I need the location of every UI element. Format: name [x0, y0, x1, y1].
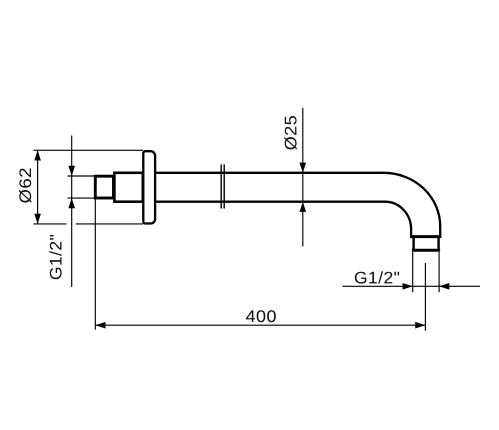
outlet centerline: [424, 263, 426, 331]
dimension G1/2 left top extension line: [68, 175, 97, 177]
outlet collar right side: [437, 237, 439, 251]
joint tick left: [220, 164, 222, 208]
outlet collar left side: [412, 237, 414, 251]
dimension 400 arrow pointing right: [415, 322, 425, 329]
dimension Ø62 arrow up: [34, 150, 41, 160]
dimension Ø62 label: [19, 168, 31, 202]
outlet collar top band: [410, 235, 441, 238]
tube top edge: [156, 172, 385, 174]
dimension G1/2 left label: [49, 235, 61, 279]
wall flange: [143, 151, 155, 223]
dimension G1/2 left dimension line: [71, 136, 73, 288]
joint tick right: [223, 164, 225, 208]
dimension G1/2 right dimension line: [343, 285, 481, 287]
tube bottom edge: [156, 201, 386, 203]
downpipe inner edge: [410, 229, 412, 237]
dimension G1/2 left arrow up: [68, 198, 75, 208]
downpipe outer edge: [439, 226, 441, 237]
dimension Ø25 label: [284, 116, 296, 150]
dimension G1/2 right label: [355, 271, 399, 283]
small fitting (G1/2 nipple): [95, 176, 113, 198]
dimension 400 left extension line: [94, 199, 96, 330]
outlet left extension line: [412, 252, 414, 292]
dimension Ø25 arrow down: [300, 163, 307, 173]
dimension Ø62 bottom extension line: [33, 223, 66, 225]
dimension Ø62 dimension line: [37, 150, 39, 224]
middle fitting (thread body): [114, 173, 142, 202]
outlet collar bottom band: [412, 249, 440, 252]
dimension G1/2 left bottom extension line: [68, 197, 97, 199]
elbow outer arc: [384, 173, 441, 227]
dimension 400 label: [246, 310, 276, 322]
dimension G1/2 left arrow down: [68, 166, 75, 176]
dimension Ø62 arrow down: [34, 214, 41, 224]
dimension Ø62 top extension line: [33, 149, 143, 151]
dimension Ø25 arrow up: [300, 202, 307, 212]
dimension G1/2 right arrow pointing right: [403, 283, 413, 290]
dimension 400 arrow pointing left: [95, 322, 105, 329]
outlet right extension line: [438, 252, 440, 292]
dimension G1/2 right arrow pointing left: [439, 283, 449, 290]
dimension Ø25 dimension line: [302, 108, 304, 247]
dimension 400 dimension line: [95, 324, 425, 326]
elbow inner arc: [385, 202, 411, 230]
